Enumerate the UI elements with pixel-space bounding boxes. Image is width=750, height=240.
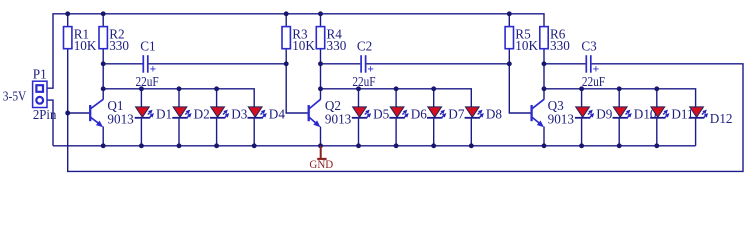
- wire stage1 LED column x=141.4: [140, 89, 142, 146]
- svg-text:9013: 9013: [548, 112, 575, 127]
- wire P1 pin 2 to GND bus: [47, 100, 53, 146]
- node VCC rail junctions: [65, 11, 511, 16]
- wire R4/Q2 collector column: [320, 14, 322, 100]
- svg-text:9013: 9013: [107, 112, 134, 127]
- svg-text:2Pin: 2Pin: [33, 107, 57, 122]
- svg-text:22uF: 22uF: [352, 74, 375, 89]
- ground symbol: [317, 146, 326, 159]
- wire stage3 LED column x=619.2: [618, 89, 620, 146]
- wire stage2 LED anode bus: [321, 89, 472, 107]
- wire stage1 LED column x=179.0: [178, 89, 180, 146]
- svg-text:D7: D7: [448, 107, 465, 122]
- svg-text:D2: D2: [194, 107, 210, 122]
- wire VCC top rail with left drop to P1 pin 1 and right drop into R6: [47, 14, 544, 88]
- svg-text:3-5V: 3-5V: [3, 88, 27, 103]
- svg-text:C3: C3: [581, 39, 597, 54]
- svg-text:D3: D3: [231, 107, 248, 122]
- node LED anode bus junctions: [101, 86, 660, 91]
- LED D3: [210, 107, 248, 122]
- capacitor C1: [136, 39, 159, 89]
- wire feedback: Q1 base down, along bottom, up right side to C3: [68, 64, 743, 172]
- resistor R3: [282, 26, 315, 53]
- LED D9: [575, 107, 613, 122]
- svg-text:C1: C1: [140, 39, 155, 54]
- wire C1 coupling: collector to C1 to R3 column: [103, 63, 142, 65]
- LED D4: [248, 107, 286, 122]
- svg-text:D11: D11: [671, 107, 693, 122]
- resistor R2: [99, 26, 129, 53]
- wire stage3 LED column x=656.8: [656, 89, 658, 146]
- resistor R4: [316, 26, 346, 53]
- svg-text:22uF: 22uF: [582, 74, 605, 89]
- svg-text:D8: D8: [486, 107, 503, 122]
- svg-text:D6: D6: [411, 107, 428, 122]
- wire LED cathode column x=254.2: [253, 119, 255, 146]
- svg-text:P1: P1: [33, 67, 47, 82]
- wire stage2 LED column x=358.5: [358, 89, 360, 146]
- wire stage3 LED column x=581.6: [581, 89, 583, 146]
- wire Q3 emitter to GND bus: [543, 127, 545, 146]
- svg-text:330: 330: [109, 38, 129, 53]
- wire R1 column: rail to base node, base wire to Q1: [68, 14, 91, 113]
- svg-text:330: 330: [327, 38, 347, 53]
- capacitor C3: [581, 39, 605, 89]
- wire Q1 emitter to GND bus: [102, 127, 104, 146]
- LED D5: [352, 107, 390, 122]
- wire stage1 LED column x=216.6: [216, 89, 218, 146]
- svg-text:GND: GND: [309, 157, 333, 171]
- svg-text:9013: 9013: [325, 112, 352, 127]
- wire stage2 LED column x=433.7: [433, 89, 435, 146]
- node coupling row junctions: [101, 61, 547, 66]
- node Q1 base junction: [65, 111, 70, 116]
- transistor Q3 (9013 NPN): [532, 98, 565, 127]
- LED D7: [427, 107, 465, 122]
- wire stage2 LED column x=396.1: [395, 89, 397, 146]
- node GND bus junctions: [101, 143, 660, 148]
- wire C3: collector to C3 (right side continues to feedback): [544, 63, 586, 65]
- LED D6: [389, 107, 427, 122]
- wire stage3 LED anode bus: [544, 89, 696, 107]
- capacitor C2: [352, 39, 375, 89]
- LED D10: [613, 107, 657, 122]
- wire R5 column: rail to Q3 base: [509, 14, 531, 113]
- wire R3 column: rail to Q2 base: [286, 14, 309, 113]
- LED D2: [172, 107, 209, 122]
- wire R6/Q3 collector column: [543, 49, 545, 100]
- wire D12 cathode to GND bus end: [695, 119, 697, 146]
- wire Q2 emitter to GND bus: [320, 127, 322, 146]
- svg-text:C2: C2: [357, 39, 372, 54]
- resistor R5: [505, 26, 538, 53]
- LED D12: [689, 107, 733, 126]
- transistor Q1 (9013 NPN): [90, 98, 123, 127]
- connector P1 2-pin header: [33, 81, 47, 107]
- svg-text:10K: 10K: [515, 38, 538, 53]
- svg-text:D1: D1: [156, 107, 172, 122]
- wire stage1 LED anode bus: [103, 89, 254, 107]
- wire LED cathode column x=471.3: [470, 119, 472, 146]
- svg-text:22uF: 22uF: [136, 74, 159, 89]
- resistor R6: [540, 26, 570, 53]
- LED D8: [465, 107, 503, 122]
- resistor R1: [64, 26, 97, 53]
- wire C2 coupling: collector to C2 to R5 column: [321, 63, 361, 65]
- LED D1: [135, 107, 172, 122]
- svg-text:D9: D9: [596, 107, 613, 122]
- LED D11: [650, 107, 694, 122]
- svg-text:D4: D4: [269, 107, 286, 122]
- wire GND bus (emitters and LED cathodes): [53, 145, 696, 147]
- svg-text:D12: D12: [710, 111, 733, 126]
- svg-text:10K: 10K: [292, 38, 315, 53]
- svg-text:330: 330: [550, 38, 570, 53]
- transistor Q2 (9013 NPN): [309, 98, 341, 127]
- svg-text:10K: 10K: [74, 38, 97, 53]
- svg-text:D5: D5: [373, 107, 390, 122]
- wire R2/Q1 collector column: [102, 14, 104, 100]
